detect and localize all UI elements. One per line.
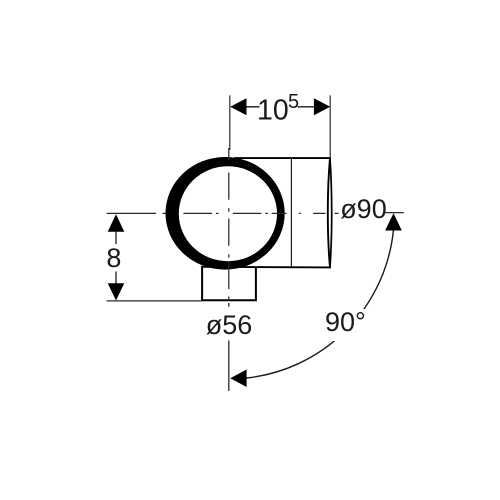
svg-text:90°: 90° bbox=[325, 307, 366, 337]
svg-text:10: 10 bbox=[257, 94, 289, 126]
svg-text:ø56: ø56 bbox=[206, 310, 253, 340]
svg-text:8: 8 bbox=[106, 243, 121, 273]
svg-text:5: 5 bbox=[288, 91, 299, 113]
svg-text:ø90: ø90 bbox=[340, 194, 387, 224]
